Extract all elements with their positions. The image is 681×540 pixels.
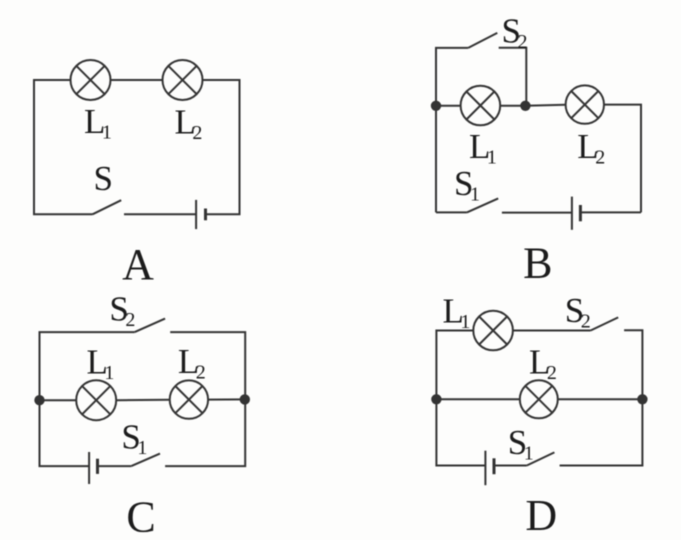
node mid junction (circuit B) (521, 102, 529, 110)
lamp L2 (circuit D) (520, 380, 558, 418)
node right junction (circuit D) (638, 395, 646, 403)
svg-text:L1: L1 (84, 102, 112, 144)
switch S1 blade (circuit D) (527, 452, 555, 465)
svg-text:S1: S1 (121, 418, 147, 460)
switch S2 blade (circuit C) (135, 319, 165, 333)
lamp L2 (circuit C) (170, 380, 208, 418)
switch S2 blade (circuit D) (591, 317, 619, 330)
svg-text:S: S (94, 159, 113, 198)
switch S1 blade (circuit C) (131, 454, 160, 467)
svg-text:L2: L2 (178, 342, 206, 384)
svg-text:B: B (523, 239, 552, 288)
wire B lamp L2 to right side down (604, 105, 641, 213)
lamp L1 (circuit A) (71, 60, 111, 100)
svg-text:L2: L2 (175, 103, 203, 145)
wire B node to lamp L1 (436, 105, 461, 107)
wire B S1 contact to battery (502, 212, 572, 214)
wire D top-left, left side, bottom-left (436, 331, 485, 466)
svg-text:C: C (126, 493, 155, 540)
wire C S2 contact, right side, bottom-right (165, 332, 245, 466)
wire B S2 contact and drop to node (499, 48, 527, 106)
battery (circuit B) short plate (579, 205, 582, 221)
wire C left node to lamp L1 (40, 399, 77, 401)
switch S2 blade (circuit B) (468, 33, 497, 48)
node left junction (circuit D) (432, 395, 440, 403)
node left junction (circuit B) (432, 102, 440, 110)
wire D left node to lamp L2 (436, 398, 520, 400)
node left junction (circuit C) (35, 396, 43, 404)
svg-text:L1: L1 (87, 343, 115, 385)
wire A between lamps (111, 79, 163, 81)
wire C top-left, left side, bottom-left (40, 332, 135, 466)
lamp L2 (circuit B) (566, 85, 604, 123)
switch S blade (circuit A) (93, 200, 122, 214)
wire B mid node to lamp L2 (525, 105, 565, 106)
svg-text:A: A (122, 240, 154, 289)
svg-text:S2: S2 (502, 12, 528, 54)
lamp L1 (circuit B) (461, 86, 501, 126)
switch S1 blade (circuit B) (467, 198, 498, 212)
wire D S2 contact, right side, bottom-right (560, 330, 643, 465)
wire C lamp L2 to right node (208, 398, 245, 400)
battery (circuit D) short plate (493, 458, 496, 474)
battery (circuit B) long plate (571, 197, 573, 230)
battery (circuit C) short plate (96, 459, 99, 474)
wire A right loop (top-right, right side, bottom-right) (203, 80, 240, 214)
wire D lamp L2 to right node (558, 398, 643, 400)
wire A switch contact to battery (124, 213, 196, 215)
lamp L1 (circuit D) (473, 311, 513, 351)
wire C battery to S1 pivot (98, 465, 132, 467)
svg-text:S2: S2 (565, 291, 591, 333)
battery (circuit D) long plate (484, 451, 486, 486)
wire D lamp L1 to S2 pivot (513, 330, 591, 332)
node right junction (circuit C) (241, 395, 249, 403)
wire B bottom-left stub (436, 211, 467, 213)
lamp L1 (circuit C) (76, 380, 116, 420)
lamp L2 (circuit A) (163, 60, 203, 100)
wire B battery to right corner (580, 211, 641, 213)
wire C between lamps (116, 399, 169, 401)
svg-text:L2: L2 (529, 343, 557, 385)
battery (circuit C) long plate (88, 452, 90, 484)
battery (circuit A) short plate (204, 209, 207, 221)
svg-text:S1: S1 (508, 423, 534, 465)
svg-text:S1: S1 (454, 164, 480, 206)
wire D battery to S1 pivot (494, 465, 527, 467)
wire B lamp L1 to mid node (500, 105, 525, 107)
svg-text:D: D (525, 491, 557, 540)
battery (circuit A) long plate (195, 200, 197, 229)
svg-text:S2: S2 (109, 289, 135, 331)
wire A left loop (top-left, left side, bottom-left) (34, 80, 93, 214)
svg-text:L2: L2 (577, 127, 605, 169)
svg-text:L1: L1 (469, 127, 497, 169)
svg-text:L1: L1 (443, 292, 471, 334)
wire B left side and top-left stub (436, 48, 468, 213)
